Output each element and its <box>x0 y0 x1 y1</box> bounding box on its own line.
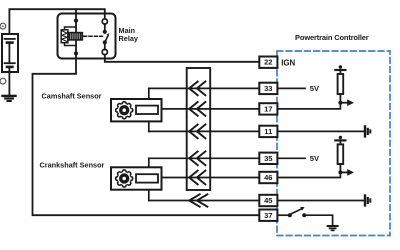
battery B1 <box>2 34 18 72</box>
svg-text:5V: 5V <box>310 84 320 93</box>
wire camshaft signal to pin 17 <box>158 108 259 110</box>
pin 37 box <box>259 210 277 221</box>
pin 35 box <box>259 153 277 164</box>
wire pin 17 to comparator node <box>277 103 340 109</box>
relay coil terminal top <box>74 19 78 23</box>
relay driver switch <box>288 207 306 217</box>
svg-text:22: 22 <box>264 58 272 67</box>
battery negative terminal marker <box>0 78 6 84</box>
wire crankshaft 5V supply to pin 35 <box>149 157 259 159</box>
signal arrow cam <box>340 102 347 104</box>
pin 46 box <box>259 172 277 183</box>
relay switch <box>102 19 109 55</box>
wire camshaft 5V supply to pin 33 <box>149 87 259 89</box>
wire crankshaft shield to pin 45 <box>149 200 259 202</box>
twisted-wire chevrons pin 46 <box>189 171 205 185</box>
wire relay coil to pin 37 (left rail) <box>33 53 260 215</box>
svg-text:37: 37 <box>264 211 272 220</box>
svg-text:17: 17 <box>264 105 272 114</box>
pin 45 box <box>259 195 277 206</box>
wire pin 11 to internal ground <box>277 130 364 132</box>
wire battery+ to relay switch top <box>9 9 104 34</box>
junction node cam signal <box>338 101 342 105</box>
ground (pin 45) <box>365 196 370 206</box>
signal arrow crank <box>340 171 347 173</box>
twisted-wire chevrons pin 33 <box>189 82 205 96</box>
svg-text:35: 35 <box>264 154 273 163</box>
battery positive terminal marker <box>0 23 6 29</box>
relay armature dashed link <box>84 35 103 37</box>
crankshaft connector bracket <box>148 158 150 200</box>
wire battery- to ground <box>8 72 10 96</box>
svg-text:46: 46 <box>264 173 272 182</box>
pull-up resistor R1 <box>335 65 345 102</box>
relay coil K1 <box>61 27 82 46</box>
twisted-wire chevrons pin 45 <box>189 194 207 206</box>
wire pin 37 to driver switch <box>277 214 288 216</box>
twisted-wire chevrons pin 11 <box>189 125 205 139</box>
ground (pin 37 driver) <box>328 226 338 230</box>
camshaft connector bracket <box>148 88 150 131</box>
ground (battery) <box>3 96 16 101</box>
svg-text:IGN: IGN <box>281 59 295 68</box>
ground (pin 11) <box>365 126 370 136</box>
camshaft sensor <box>111 99 162 121</box>
wire relay coil riser (taps battery+ wire) <box>75 9 77 53</box>
crankshaft sensor <box>111 167 162 189</box>
wire camshaft ground to pin 11 <box>149 130 259 132</box>
relay box <box>58 14 116 59</box>
pin 11 box <box>259 126 277 137</box>
twisted-wire chevrons pin 35 <box>189 151 205 165</box>
powertrain controller dashed border <box>277 51 390 236</box>
svg-text:Powertrain Controller: Powertrain Controller <box>295 33 369 42</box>
harness connector block <box>187 68 211 190</box>
wire pin 45 to internal ground <box>277 200 364 202</box>
relay coil terminal bottom <box>74 51 78 55</box>
pin 17 box <box>259 103 277 114</box>
svg-text:5V: 5V <box>310 154 320 163</box>
svg-text:33: 33 <box>264 84 272 93</box>
twisted-wire chevrons pin 17 <box>189 102 205 116</box>
wire crankshaft signal to pin 46 <box>158 177 259 179</box>
junction node crank signal <box>338 170 342 174</box>
svg-text:45: 45 <box>264 196 273 205</box>
pull-up resistor R2 <box>335 136 345 173</box>
wire pin 46 to comparator node <box>277 172 340 177</box>
wire relay switch to pin 22 <box>105 55 259 62</box>
pin 22 box <box>259 57 277 68</box>
svg-text:Relay: Relay <box>119 34 139 43</box>
pin 33 box <box>259 83 277 94</box>
svg-text:Camshaft Sensor: Camshaft Sensor <box>42 91 102 100</box>
svg-text:11: 11 <box>264 127 273 136</box>
svg-text:Crankshaft Sensor: Crankshaft Sensor <box>40 161 105 170</box>
wire pin 33 to 5V label <box>277 87 305 89</box>
wire driver switch to ground <box>304 215 332 225</box>
wire pin 35 to 5V label <box>277 157 305 159</box>
